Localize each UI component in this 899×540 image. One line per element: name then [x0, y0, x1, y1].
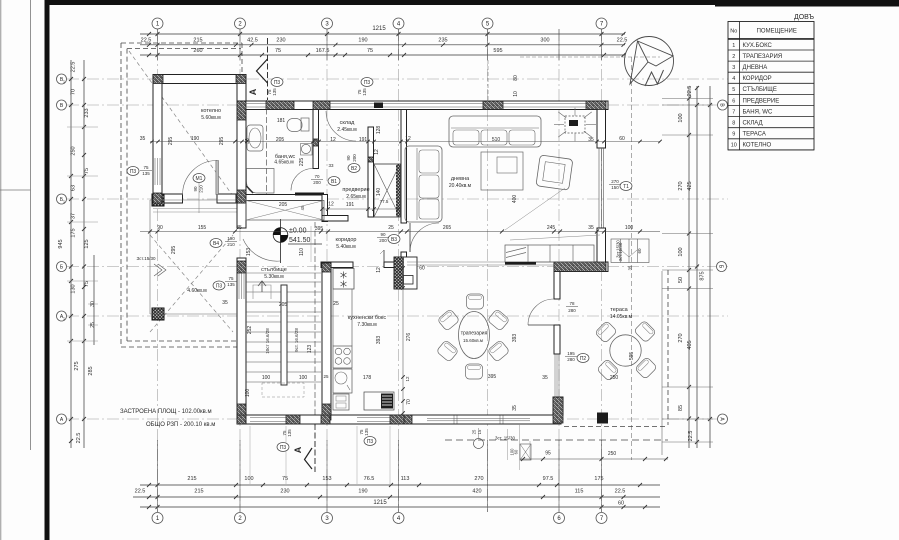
svg-text:78: 78 — [569, 301, 575, 306]
svg-text:А: А — [293, 446, 303, 453]
svg-text:2.65кв.м: 2.65кв.м — [346, 194, 366, 200]
svg-text:63: 63 — [71, 185, 77, 191]
svg-text:205: 205 — [279, 202, 288, 208]
svg-text:115: 115 — [575, 489, 584, 495]
svg-text:П3: П3 — [130, 169, 137, 175]
right dimension chain A — [688, 86, 690, 448]
svg-text:295: 295 — [171, 246, 177, 255]
porch edge lines — [150, 199, 237, 201]
wall column blocks — [153, 75, 163, 84]
svg-text:кухненски бокс: кухненски бокс — [348, 315, 387, 321]
svg-text:дневна: дневна — [451, 176, 470, 182]
grid bubble A1 left — [57, 311, 67, 321]
svg-text:595: 595 — [629, 352, 635, 361]
svg-text:ОБЩО РЗП - 200.10 кв.м: ОБЩО РЗП - 200.10 кв.м — [146, 422, 215, 428]
kitchen counter — [351, 289, 353, 346]
svg-text:76.5: 76.5 — [364, 476, 375, 482]
svg-text:75: 75 — [84, 281, 90, 287]
predverie bottom wall — [322, 216, 348, 222]
svg-text:235: 235 — [438, 38, 447, 44]
svg-text:270: 270 — [678, 181, 684, 190]
svg-text:252: 252 — [247, 326, 253, 335]
door B3 corridor-living — [410, 223, 439, 252]
top dimension chain row2 — [140, 44, 625, 46]
top grid stems — [157, 29, 159, 60]
left chain boundary ticks — [67, 126, 98, 128]
svg-text:35: 35 — [140, 136, 146, 142]
svg-text:200: 200 — [379, 238, 387, 243]
svg-text:14.05кв.м: 14.05кв.м — [610, 314, 633, 320]
svg-text:КОРИДОР: КОРИДОР — [743, 76, 772, 82]
svg-text:230: 230 — [280, 489, 289, 495]
svg-text:35: 35 — [588, 225, 594, 231]
grid bubble Bb right — [717, 262, 727, 272]
svg-text:395: 395 — [315, 226, 324, 232]
svg-text:СКЛАД: СКЛАД — [743, 121, 763, 127]
svg-text:75: 75 — [282, 476, 288, 482]
svg-text:12: 12 — [405, 136, 411, 142]
svg-text:270: 270 — [474, 476, 483, 482]
predverie threshold black — [295, 193, 324, 196]
svg-text:1: 1 — [63, 317, 65, 321]
stairs right wall — [322, 263, 331, 415]
grid bubble 1 top — [152, 18, 163, 29]
label B2 — [348, 164, 360, 173]
label B3 — [388, 235, 400, 244]
section line A-A top — [267, 38, 269, 100]
kotelno left wall window — [154, 158, 156, 185]
living left wall — [401, 110, 407, 224]
left wall window (P3 entry) — [238, 273, 240, 300]
bottom wall dining part — [404, 415, 554, 424]
svg-text:35: 35 — [222, 300, 228, 306]
svg-text:предверие: предверие — [342, 187, 369, 193]
svg-text:ЗАСТРОЕНА ПЛОЩ - 102.00кв.м: ЗАСТРОЕНА ПЛОЩ - 102.00кв.м — [120, 409, 212, 415]
svg-text:85: 85 — [678, 405, 684, 411]
svg-text:10: 10 — [731, 143, 737, 149]
svg-text:190: 190 — [227, 236, 235, 241]
svg-text:склад: склад — [340, 120, 355, 126]
svg-text:стълбище: стълбище — [261, 267, 287, 273]
grid bubble 4 bottom — [393, 513, 404, 524]
dining table — [459, 312, 490, 359]
dashed canopy line right — [631, 57, 633, 460]
svg-text:191: 191 — [359, 137, 368, 143]
svg-text:225: 225 — [299, 158, 305, 167]
svg-text:75: 75 — [143, 165, 149, 170]
right dimension chain B — [696, 86, 698, 448]
toilet — [301, 118, 309, 131]
svg-text:10: 10 — [513, 91, 519, 97]
svg-text:No: No — [730, 29, 737, 35]
interior dim line y141 — [150, 141, 660, 143]
label M1 — [193, 174, 205, 183]
svg-text:270: 270 — [611, 179, 619, 184]
svg-text:П3: П3 — [364, 80, 371, 86]
grid bubble 1 bottom — [152, 513, 163, 524]
label P3 entry — [213, 281, 225, 290]
svg-text:10ст 16.6/28: 10ст 16.6/28 — [265, 328, 270, 354]
svg-text:175: 175 — [71, 228, 77, 237]
svg-text:4.65кв.м: 4.65кв.м — [274, 160, 294, 166]
svg-text:250: 250 — [610, 375, 619, 381]
level marker — [280, 219, 282, 263]
svg-text:15: 15 — [477, 429, 482, 434]
svg-text:75: 75 — [84, 168, 90, 174]
svg-text:75: 75 — [228, 276, 234, 281]
svg-text:250: 250 — [71, 146, 77, 155]
svg-text:280: 280 — [568, 308, 576, 313]
grid bubble 4 top — [393, 18, 404, 29]
grid bubble B1 left — [57, 74, 67, 84]
svg-text:35: 35 — [542, 375, 548, 381]
bottom steps — [520, 444, 531, 460]
svg-text:1: 1 — [63, 200, 65, 204]
svg-text:В4: В4 — [213, 241, 219, 247]
label B1 — [328, 177, 340, 186]
svg-text:15.60кв.м: 15.60кв.м — [463, 338, 483, 343]
label B4 — [210, 239, 222, 248]
svg-text:П3: П3 — [216, 284, 223, 290]
svg-text:280: 280 — [567, 357, 575, 362]
svg-text:135: 135 — [227, 282, 235, 287]
grid bubble 2 bottom — [235, 513, 246, 524]
svg-text:295: 295 — [168, 137, 174, 146]
svg-text:230: 230 — [276, 38, 285, 44]
svg-text:ПОМЕЩЕНИЕ: ПОМЕЩЕНИЕ — [757, 29, 797, 35]
dining right wall — [554, 265, 560, 299]
house left wall — [237, 75, 246, 229]
bottom dimension chain row1 — [140, 484, 660, 486]
grid bubble A left — [57, 414, 67, 424]
svg-text:95: 95 — [545, 451, 551, 457]
svg-text:22.5: 22.5 — [687, 86, 693, 97]
svg-text:45: 45 — [300, 205, 305, 210]
svg-text:215: 215 — [187, 476, 196, 482]
svg-text:22.5: 22.5 — [76, 433, 82, 444]
svg-text:35: 35 — [236, 225, 242, 231]
staircase center stringer — [281, 285, 287, 385]
corridor wardrobe — [246, 201, 324, 221]
dining chairs — [467, 294, 484, 309]
svg-text:4.60кв.м: 4.60кв.м — [187, 288, 207, 294]
entry door arc — [243, 239, 280, 261]
svg-text:25: 25 — [333, 301, 339, 307]
chimney block — [394, 257, 417, 289]
terrace dashed edge — [564, 426, 668, 428]
svg-text:42.5: 42.5 — [247, 38, 258, 44]
svg-text:135: 135 — [272, 88, 277, 96]
door B1 banya-predverie — [291, 169, 313, 191]
TV with rays — [565, 116, 585, 133]
svg-text:60: 60 — [419, 266, 425, 272]
stove — [333, 346, 352, 368]
svg-text:5.30кв.м: 5.30кв.м — [264, 274, 284, 280]
svg-text:155: 155 — [198, 225, 207, 231]
grid bubble 2 top — [235, 18, 246, 29]
svg-text:Т1: Т1 — [623, 184, 629, 190]
svg-text:100: 100 — [678, 113, 684, 122]
grid axis vertical lines — [157, 29, 159, 512]
grid bubble 7 top — [596, 18, 607, 29]
svg-text:1: 1 — [732, 43, 735, 49]
svg-text:400: 400 — [512, 195, 518, 204]
svg-text:12: 12 — [374, 149, 380, 155]
svg-text:90: 90 — [346, 155, 351, 161]
svg-text:125: 125 — [84, 239, 90, 248]
svg-text:60: 60 — [514, 449, 519, 454]
sklad right wall — [368, 127, 374, 217]
svg-text:270: 270 — [678, 333, 684, 342]
grid bubble 7 bottom — [596, 513, 607, 524]
coffee table — [481, 152, 523, 190]
kitchen cabinet — [333, 394, 349, 410]
svg-text:37: 37 — [71, 213, 77, 219]
svg-text:75: 75 — [275, 48, 281, 54]
svg-text:25: 25 — [90, 322, 96, 328]
svg-text:80: 80 — [513, 75, 519, 81]
main top wall — [237, 101, 608, 110]
svg-text:393: 393 — [512, 334, 518, 343]
svg-text:СТЪЛБИЩЕ: СТЪЛБИЩЕ — [743, 87, 777, 93]
svg-text:245: 245 — [547, 225, 556, 231]
beam over dining opening — [407, 261, 560, 263]
staircase dashed landing — [262, 383, 304, 397]
svg-text:12: 12 — [376, 267, 382, 273]
svg-text:ТРАПЕЗАРИЯ: ТРАПЕЗАРИЯ — [743, 54, 783, 60]
svg-text:35: 35 — [588, 137, 594, 143]
svg-text:90: 90 — [380, 232, 386, 237]
svg-text:35: 35 — [628, 265, 633, 270]
svg-text:25: 25 — [472, 429, 477, 434]
svg-text:котелно: котелно — [201, 108, 221, 114]
shower — [247, 169, 275, 194]
bottom segment extension lines — [249, 426, 251, 484]
porch columns — [152, 194, 164, 206]
svg-text:97.5: 97.5 — [543, 476, 554, 482]
svg-text:ДНЕВНА: ДНЕВНА — [743, 65, 768, 71]
bathtub — [247, 125, 263, 151]
grid axis horizontal lines — [67, 78, 728, 80]
left dimension chain mid — [83, 60, 85, 448]
svg-text:140: 140 — [376, 188, 382, 197]
bottom step aux lines — [507, 429, 509, 460]
sideboard fireplace — [505, 245, 594, 262]
svg-text:КУХ.БОКС: КУХ.БОКС — [743, 43, 773, 49]
svg-text:20.40кв.м: 20.40кв.м — [449, 183, 472, 189]
svg-text:100: 100 — [625, 225, 634, 231]
svg-text:В3: В3 — [391, 237, 397, 243]
svg-text:КОТЕЛНО: КОТЕЛНО — [743, 143, 772, 149]
staircase up arrow — [258, 281, 266, 292]
door B3 kitchen leaf — [383, 250, 385, 262]
svg-text:ДОВЪ: ДОВЪ — [794, 14, 814, 21]
dishwasher black — [364, 392, 394, 410]
svg-text:135: 135 — [364, 428, 369, 436]
svg-text:25: 25 — [323, 374, 329, 379]
svg-text:22.5: 22.5 — [615, 489, 626, 495]
label T1 — [620, 182, 632, 191]
kitchen sink — [333, 369, 352, 393]
svg-text:22.5: 22.5 — [688, 431, 694, 442]
svg-text:135: 135 — [142, 171, 150, 176]
sheet frame left bar — [45, 0, 50, 540]
wash basin — [301, 144, 313, 156]
svg-text:тераса: тераса — [610, 307, 628, 313]
svg-text:М1: М1 — [196, 176, 203, 182]
right dimension chain C — [709, 86, 711, 448]
svg-text:60: 60 — [618, 501, 624, 507]
svg-text:60: 60 — [619, 136, 625, 142]
sheet frame top bar — [45, 0, 899, 5]
dims top right dashed — [487, 60, 489, 100]
svg-text:178: 178 — [363, 375, 372, 381]
right dimension tick lines — [662, 98, 713, 100]
svg-text:190: 190 — [191, 136, 200, 142]
grid bubble Bb left — [57, 262, 67, 272]
svg-text:395: 395 — [488, 374, 497, 380]
living right wall — [597, 101, 606, 148]
svg-text:113: 113 — [401, 476, 410, 482]
svg-text:210: 210 — [227, 242, 235, 247]
dashed diagonal terrace X — [150, 235, 233, 332]
staircase treads — [246, 281, 321, 283]
grid bubble 6 bottom — [554, 513, 565, 524]
bottom dimension chain row3 total — [140, 506, 660, 508]
kotelno bottom wall — [153, 194, 183, 203]
banya bottom wall — [237, 195, 324, 201]
leader lines dnevna — [505, 188, 565, 230]
svg-text:П3: П3 — [280, 445, 287, 451]
svg-text:30: 30 — [90, 301, 96, 307]
svg-text:2: 2 — [732, 54, 735, 60]
grid bubble 3 top — [322, 18, 333, 29]
svg-text:±0.00: ±0.00 — [289, 228, 307, 235]
svg-text:1215: 1215 — [373, 500, 387, 506]
svg-text:35: 35 — [512, 405, 518, 411]
svg-text:75: 75 — [367, 48, 373, 54]
svg-text:5.40кв.м: 5.40кв.м — [336, 244, 356, 250]
svg-text:90: 90 — [157, 225, 163, 231]
svg-text:181: 181 — [277, 118, 286, 124]
svg-text:6: 6 — [732, 98, 735, 104]
svg-text:150: 150 — [611, 185, 619, 190]
banya right wall — [313, 110, 319, 169]
living right window — [598, 148, 600, 228]
predverie corner wall — [322, 195, 328, 222]
svg-text:25: 25 — [388, 225, 394, 231]
svg-text:70: 70 — [406, 399, 412, 405]
svg-text:510: 510 — [492, 137, 501, 143]
svg-text:190: 190 — [358, 38, 367, 44]
left dimension chain inner partial — [93, 255, 95, 345]
svg-text:12: 12 — [328, 202, 334, 208]
svg-text:В1: В1 — [331, 179, 337, 185]
svg-text:А: А — [248, 88, 258, 95]
label P2 — [577, 354, 589, 363]
svg-text:7: 7 — [732, 109, 735, 115]
black band under sideboard — [505, 262, 536, 265]
grid bubble B right — [718, 100, 728, 110]
svg-text:123: 123 — [307, 345, 313, 354]
terrace right edge — [661, 271, 663, 455]
svg-text:33: 33 — [328, 163, 334, 168]
svg-text:215: 215 — [194, 489, 203, 495]
svg-text:100: 100 — [244, 476, 253, 482]
svg-text:77.5: 77.5 — [380, 199, 389, 204]
svg-text:5.60кв.м: 5.60кв.м — [201, 115, 221, 121]
svg-text:130: 130 — [71, 284, 77, 293]
svg-text:коридор: коридор — [336, 237, 357, 243]
grid bubble A right — [718, 414, 728, 424]
svg-text:3ст.15/30: 3ст.15/30 — [618, 242, 623, 261]
svg-text:167.5: 167.5 — [316, 48, 330, 54]
svg-text:420: 420 — [472, 489, 481, 495]
interior dim line y209 right — [322, 208, 400, 210]
svg-text:153: 153 — [246, 248, 252, 257]
svg-text:541.50: 541.50 — [289, 237, 311, 244]
grid bubble B1b left — [57, 194, 67, 204]
svg-text:трапезария: трапезария — [461, 331, 488, 337]
svg-text:200: 200 — [313, 180, 321, 185]
svg-text:3ст. 15/30: 3ст. 15/30 — [495, 436, 516, 441]
dining internal dim line — [402, 266, 404, 415]
svg-text:191: 191 — [346, 202, 355, 208]
kotelno top wall — [153, 75, 246, 84]
svg-text:175: 175 — [594, 476, 603, 482]
top dimension chain total 1215 — [140, 33, 625, 35]
svg-text:205: 205 — [279, 302, 288, 308]
label P3 left — [127, 167, 139, 176]
terrace corner column black — [597, 413, 608, 424]
svg-text:12: 12 — [405, 376, 410, 382]
svg-text:П3: П3 — [367, 439, 374, 445]
living bottom wall (terrace side) — [554, 262, 608, 272]
svg-text:393: 393 — [376, 336, 382, 345]
shaft X box — [374, 164, 400, 217]
svg-text:В2: В2 — [351, 166, 357, 172]
svg-text:405: 405 — [687, 340, 693, 349]
label P3 top2 — [361, 78, 373, 87]
svg-text:90: 90 — [193, 186, 198, 192]
svg-text:БАНЯ, WC: БАНЯ, WC — [743, 109, 773, 115]
label P3 bottom2 — [364, 437, 376, 446]
interior dims corridor line — [140, 231, 660, 233]
svg-text:3: 3 — [732, 65, 735, 71]
dashed canopy outline — [121, 42, 242, 44]
svg-text:П2: П2 — [580, 356, 587, 362]
kotelno left wall — [153, 75, 162, 204]
section line A-A bottom — [314, 424, 316, 472]
fridge — [333, 269, 354, 290]
door sklad arc — [326, 111, 356, 141]
bottom wall left part — [237, 415, 561, 424]
svg-text:595: 595 — [493, 48, 502, 54]
svg-text:275: 275 — [74, 361, 80, 370]
svg-text:300: 300 — [540, 38, 549, 44]
svg-text:4: 4 — [732, 76, 735, 82]
svg-text:100: 100 — [299, 375, 308, 381]
terrace table — [610, 335, 641, 366]
svg-text:250: 250 — [608, 451, 617, 457]
scan edge line left — [30, 0, 32, 450]
room legend table — [728, 22, 814, 150]
label P3 top1 — [271, 78, 283, 87]
svg-text:70: 70 — [71, 89, 77, 95]
svg-text:100: 100 — [678, 247, 684, 256]
svg-text:36: 36 — [245, 138, 251, 144]
svg-text:875: 875 — [700, 271, 706, 280]
